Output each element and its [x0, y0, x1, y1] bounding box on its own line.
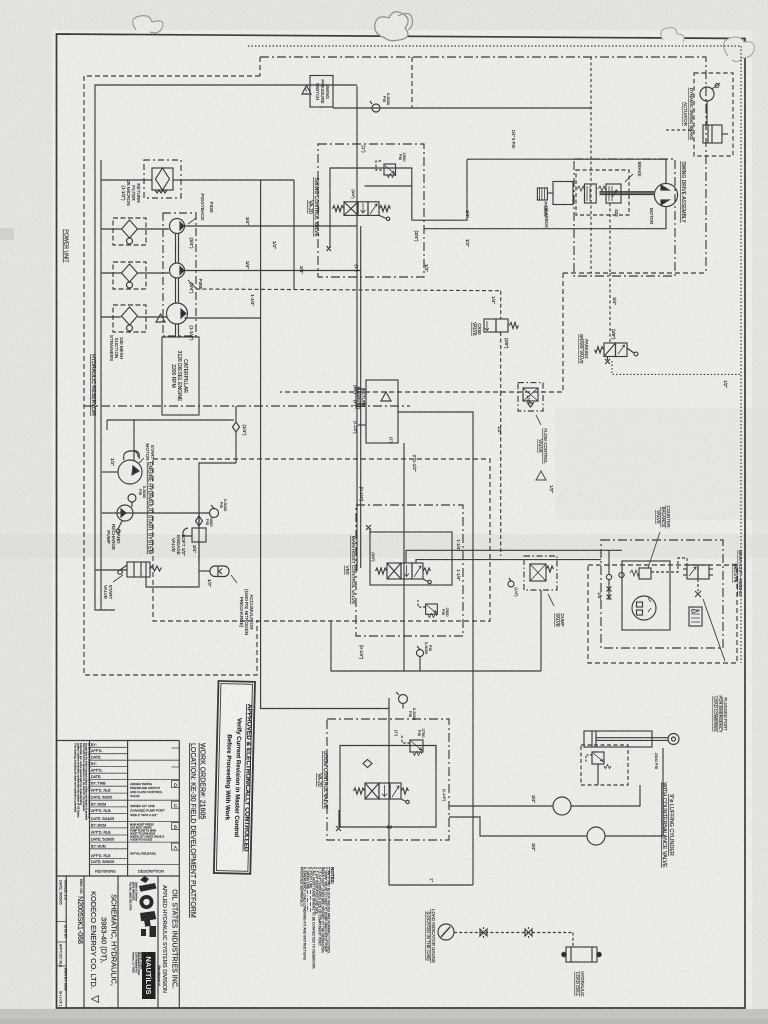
x mark drain	[605, 359, 610, 364]
x marks	[607, 587, 612, 592]
dashed pilot drop top	[500, 291, 502, 319]
NAUTILUS logo	[142, 952, 156, 999]
power unit dashed boundary	[84, 76, 260, 675]
group divider lines	[90, 760, 180, 864]
gearbox	[553, 182, 573, 205]
wire boom to cylinder A	[449, 805, 553, 807]
leader plugged port	[703, 599, 725, 661]
hoist assembly dashed box	[588, 565, 737, 663]
check valve 3000psi	[198, 523, 200, 525]
actuator gauge circle	[700, 87, 714, 101]
start motor circle	[118, 460, 142, 484]
pump outlet wire main	[185, 317, 261, 319]
sales service text	[129, 882, 139, 911]
warning triangle title	[92, 996, 99, 1003]
boom feed vertical	[388, 698, 390, 885]
brake piston 1	[585, 184, 597, 203]
hoist gauge	[417, 650, 424, 657]
leader P330	[188, 218, 196, 224]
pump P330 piggyback	[170, 219, 185, 234]
check diamond boom	[363, 760, 372, 768]
x mark boom	[336, 826, 341, 831]
return filter dashed box	[144, 160, 181, 198]
wire return drop	[293, 180, 295, 289]
engine start system dashed box	[153, 459, 490, 621]
hydraulic reservoir box	[95, 85, 357, 610]
warning triangle switch	[302, 86, 311, 95]
wire motor vertical	[133, 420, 135, 460]
wire actuator to boundary	[666, 129, 694, 131]
hand recharge pump	[117, 505, 133, 521]
top dotted boundary line	[248, 45, 741, 47]
accumulator	[210, 566, 229, 577]
main supply drop wire	[261, 180, 389, 709]
inline fitting 2	[525, 927, 532, 938]
notes block	[299, 867, 335, 970]
left edge smudge	[0, 228, 14, 240]
load indicator gauge	[438, 924, 454, 940]
wire to start motor	[102, 471, 118, 473]
scan fold band	[0, 534, 768, 558]
counterbalance dash-dot box	[601, 540, 723, 648]
main pump	[167, 303, 188, 324]
brake dashed box	[576, 170, 629, 215]
reservoir inner wall	[100, 160, 102, 610]
return filter element	[152, 168, 173, 190]
dashed drain plug	[697, 579, 699, 591]
wire start header	[107, 419, 234, 421]
soft engage valve	[192, 528, 206, 542]
flow circle A	[553, 797, 571, 815]
manifold ports	[358, 388, 366, 390]
pump shaft	[175, 234, 177, 264]
dump valve symbol	[530, 564, 546, 581]
gauge 0-3000 top	[372, 104, 380, 112]
hoist relief valve	[426, 604, 438, 614]
swing drive assembly dash-dot box	[574, 159, 675, 276]
x mark hoist	[366, 525, 371, 530]
rod eye	[668, 734, 679, 745]
swing motor	[654, 183, 677, 206]
return manifold box	[366, 380, 398, 443]
scan artifact blob top-center	[375, 12, 408, 41]
wire step to accumulator branch	[146, 463, 236, 587]
brake piston 2	[606, 184, 621, 203]
x mark swing box	[327, 246, 331, 251]
spring cap	[689, 607, 702, 626]
swing relief valve	[384, 164, 396, 175]
CR50 valve	[484, 319, 496, 332]
wire manifold to right drop	[398, 412, 473, 885]
main hoist control valve dash-dot box	[356, 505, 463, 636]
dashed line mid	[196, 289, 501, 291]
dashed gauge line	[454, 932, 573, 934]
swing spool springs	[333, 206, 345, 212]
dump valve drop wire	[540, 590, 542, 671]
warning triangle pump	[156, 314, 165, 322]
wire bottom return	[331, 621, 541, 671]
dashed drop to load cell	[572, 933, 574, 948]
wire start valve return	[95, 569, 127, 571]
boom relief valve	[410, 740, 423, 752]
counterbalance inner box	[622, 561, 670, 630]
hoist motor	[632, 596, 656, 620]
power unit right dashed edge	[411, 57, 413, 108]
cylinder rod	[596, 737, 668, 739]
wire swing work port A	[412, 159, 467, 220]
hoist spool	[387, 563, 401, 579]
start motor hose	[124, 451, 140, 460]
boom control valve dash-dot box	[327, 719, 449, 840]
inline fitting 1	[480, 927, 487, 938]
swing pilot ball	[379, 215, 386, 218]
dump valve dashed box	[524, 556, 557, 590]
return line wire	[101, 179, 152, 181]
wire accumulator	[199, 570, 210, 572]
flow circle B	[587, 827, 605, 845]
scan artifact blob top-right	[661, 28, 684, 42]
hydraulic load cell	[566, 947, 597, 962]
luffing cylinder body	[584, 731, 652, 747]
suction filter 3	[113, 305, 146, 332]
hoist inner box	[370, 532, 452, 585]
gauge 0-3000	[210, 509, 219, 518]
revision table texts	[91, 743, 116, 874]
dashed boundary swing area	[280, 273, 563, 392]
hoist work lines	[406, 550, 622, 563]
title block frame lines	[57, 740, 180, 742]
gauge small dump	[508, 581, 514, 587]
check circles	[606, 574, 611, 579]
bottom cells dividers	[57, 922, 67, 967]
pump outlet wire P365	[185, 270, 361, 272]
pump gauge	[128, 494, 136, 502]
bottom-left cells	[59, 880, 68, 1007]
dashed pilot to CB valve	[651, 558, 687, 572]
pump P365	[170, 263, 185, 278]
swing spool	[344, 202, 358, 216]
revision row lines	[90, 747, 128, 858]
scan artifact blob top-left	[133, 16, 163, 33]
flow control valve dash-dot box	[518, 383, 543, 411]
title block	[57, 741, 180, 1009]
swing valve inner box	[330, 168, 412, 246]
warning triangle flow	[536, 471, 546, 480]
flow control symbol	[523, 388, 538, 401]
revision letters	[174, 783, 178, 851]
swing control valve dash-dot box	[318, 144, 424, 277]
revision letter boxes	[172, 781, 180, 788]
wire hand pump line	[102, 512, 209, 514]
return main vertical	[403, 443, 405, 671]
actuator cylinder	[703, 125, 722, 143]
cylinder counterbalance dashed box	[581, 745, 628, 785]
check valve 1/4	[233, 422, 240, 432]
dotted right boundary	[740, 46, 742, 663]
wire switch to gauge	[333, 107, 591, 109]
start valve	[127, 562, 150, 577]
boom spool	[365, 783, 379, 799]
suction filter 2	[113, 262, 146, 289]
swing pressure switch box	[310, 76, 333, 108]
approval stamp	[214, 681, 255, 874]
wire boom to cylinder B	[449, 817, 587, 836]
supply vertical double wire	[356, 86, 358, 571]
counterbalance valve	[639, 568, 651, 579]
pilot dashed drop to parking brake	[590, 57, 592, 273]
pilot valve right	[687, 565, 698, 579]
boom inner box	[340, 746, 436, 828]
bottom scan strip	[0, 1009, 768, 1024]
disclaimer tiny text	[74, 743, 92, 820]
wire swing return	[424, 206, 666, 228]
pump dash-dot box	[163, 213, 196, 336]
engine box	[162, 337, 199, 415]
wire swing supply to motor	[467, 159, 666, 183]
brake pilot dashes	[609, 203, 611, 273]
OIL STATES logo	[139, 876, 157, 937]
parking brake pilot dashed	[609, 273, 611, 343]
dynamic swing brake actuator dashed box	[694, 73, 733, 156]
top dash-dot boundary	[260, 57, 706, 273]
wire cb to cylinder	[639, 785, 641, 790]
pump outlet wire P330	[185, 225, 358, 227]
parking brake valve	[604, 343, 616, 357]
suction filter 1	[113, 218, 146, 245]
note legend dashes	[307, 890, 310, 912]
power unit bottom dash-dot line	[84, 405, 410, 407]
drive shaft	[600, 192, 655, 195]
dotted line parking to right	[612, 361, 741, 374]
warning triangle manifold	[381, 392, 391, 401]
scan speckle overlay	[0, 0, 1, 1]
pinion	[537, 188, 547, 200]
cb relief symbol	[592, 752, 604, 764]
boom gauge	[399, 695, 408, 704]
